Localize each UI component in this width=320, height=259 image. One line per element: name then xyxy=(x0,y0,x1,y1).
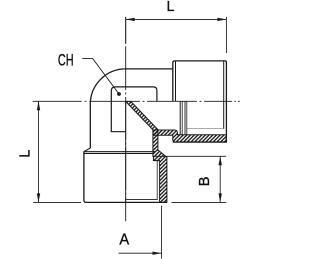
dim B: top arrow xyxy=(219,156,222,165)
dim top L: right arrow xyxy=(217,18,226,21)
hatch bottom-port right wall xyxy=(153,130,167,202)
hatch right-port bottom wall xyxy=(153,130,226,142)
dim A: arrow xyxy=(153,252,162,255)
svg-text:B: B xyxy=(197,176,213,186)
bottom port sleeve outline (view half) xyxy=(84,152,167,203)
right port pilot end (vertical) xyxy=(179,102,181,135)
svg-text:L: L xyxy=(167,0,175,15)
hatch cone strip xyxy=(126,102,159,131)
right port thread end second line xyxy=(186,102,188,135)
dim left L: bottom extension xyxy=(33,201,81,203)
bottom port thread end (horizontal) xyxy=(153,160,159,162)
section boundary line at vertical axis xyxy=(125,102,127,203)
CH leader dot xyxy=(117,92,121,96)
right port thread minor line (thin) xyxy=(187,128,224,130)
centerline vertical (bottom port axis) xyxy=(125,17,127,221)
bottom port thread minor line (thin) xyxy=(156,161,158,201)
outer arc of elbow body xyxy=(90,69,125,104)
dim A: line xyxy=(119,252,162,254)
centerline horizontal (right port axis) xyxy=(33,100,240,102)
dim B: bottom extension xyxy=(172,201,227,203)
svg-text:L: L xyxy=(17,150,33,158)
dim top L: line xyxy=(126,18,227,20)
sleeve top face line xyxy=(84,153,153,155)
dim left L: top arrow xyxy=(37,101,40,110)
dim top L: left arrow xyxy=(126,18,135,21)
dim top L: extension right xyxy=(225,17,227,53)
right port block xyxy=(173,61,227,142)
body flare to sleeve xyxy=(84,148,91,152)
block flange second line xyxy=(175,61,177,101)
right port pilot end second line xyxy=(181,102,183,135)
flange top line xyxy=(84,151,155,153)
dim B: bottom arrow xyxy=(219,193,222,202)
body top line xyxy=(126,68,173,70)
inner silhouette of bend xyxy=(111,87,157,132)
right port thread end (thin vertical) xyxy=(184,102,186,135)
dim left L: bottom arrow xyxy=(37,193,40,202)
dim left L: line xyxy=(38,101,40,202)
block right face chamfer line xyxy=(223,61,225,129)
dim top L: extension left xyxy=(125,17,127,44)
dim B: line xyxy=(219,156,221,202)
dim A: extension line xyxy=(161,206,163,259)
svg-text:CH: CH xyxy=(58,52,74,70)
svg-text:A: A xyxy=(119,232,129,249)
body left wall xyxy=(89,104,91,148)
CH leader line xyxy=(82,59,119,94)
flange bottom line + B top extension xyxy=(153,155,226,157)
sleeve bottom chamfer line xyxy=(126,198,158,200)
